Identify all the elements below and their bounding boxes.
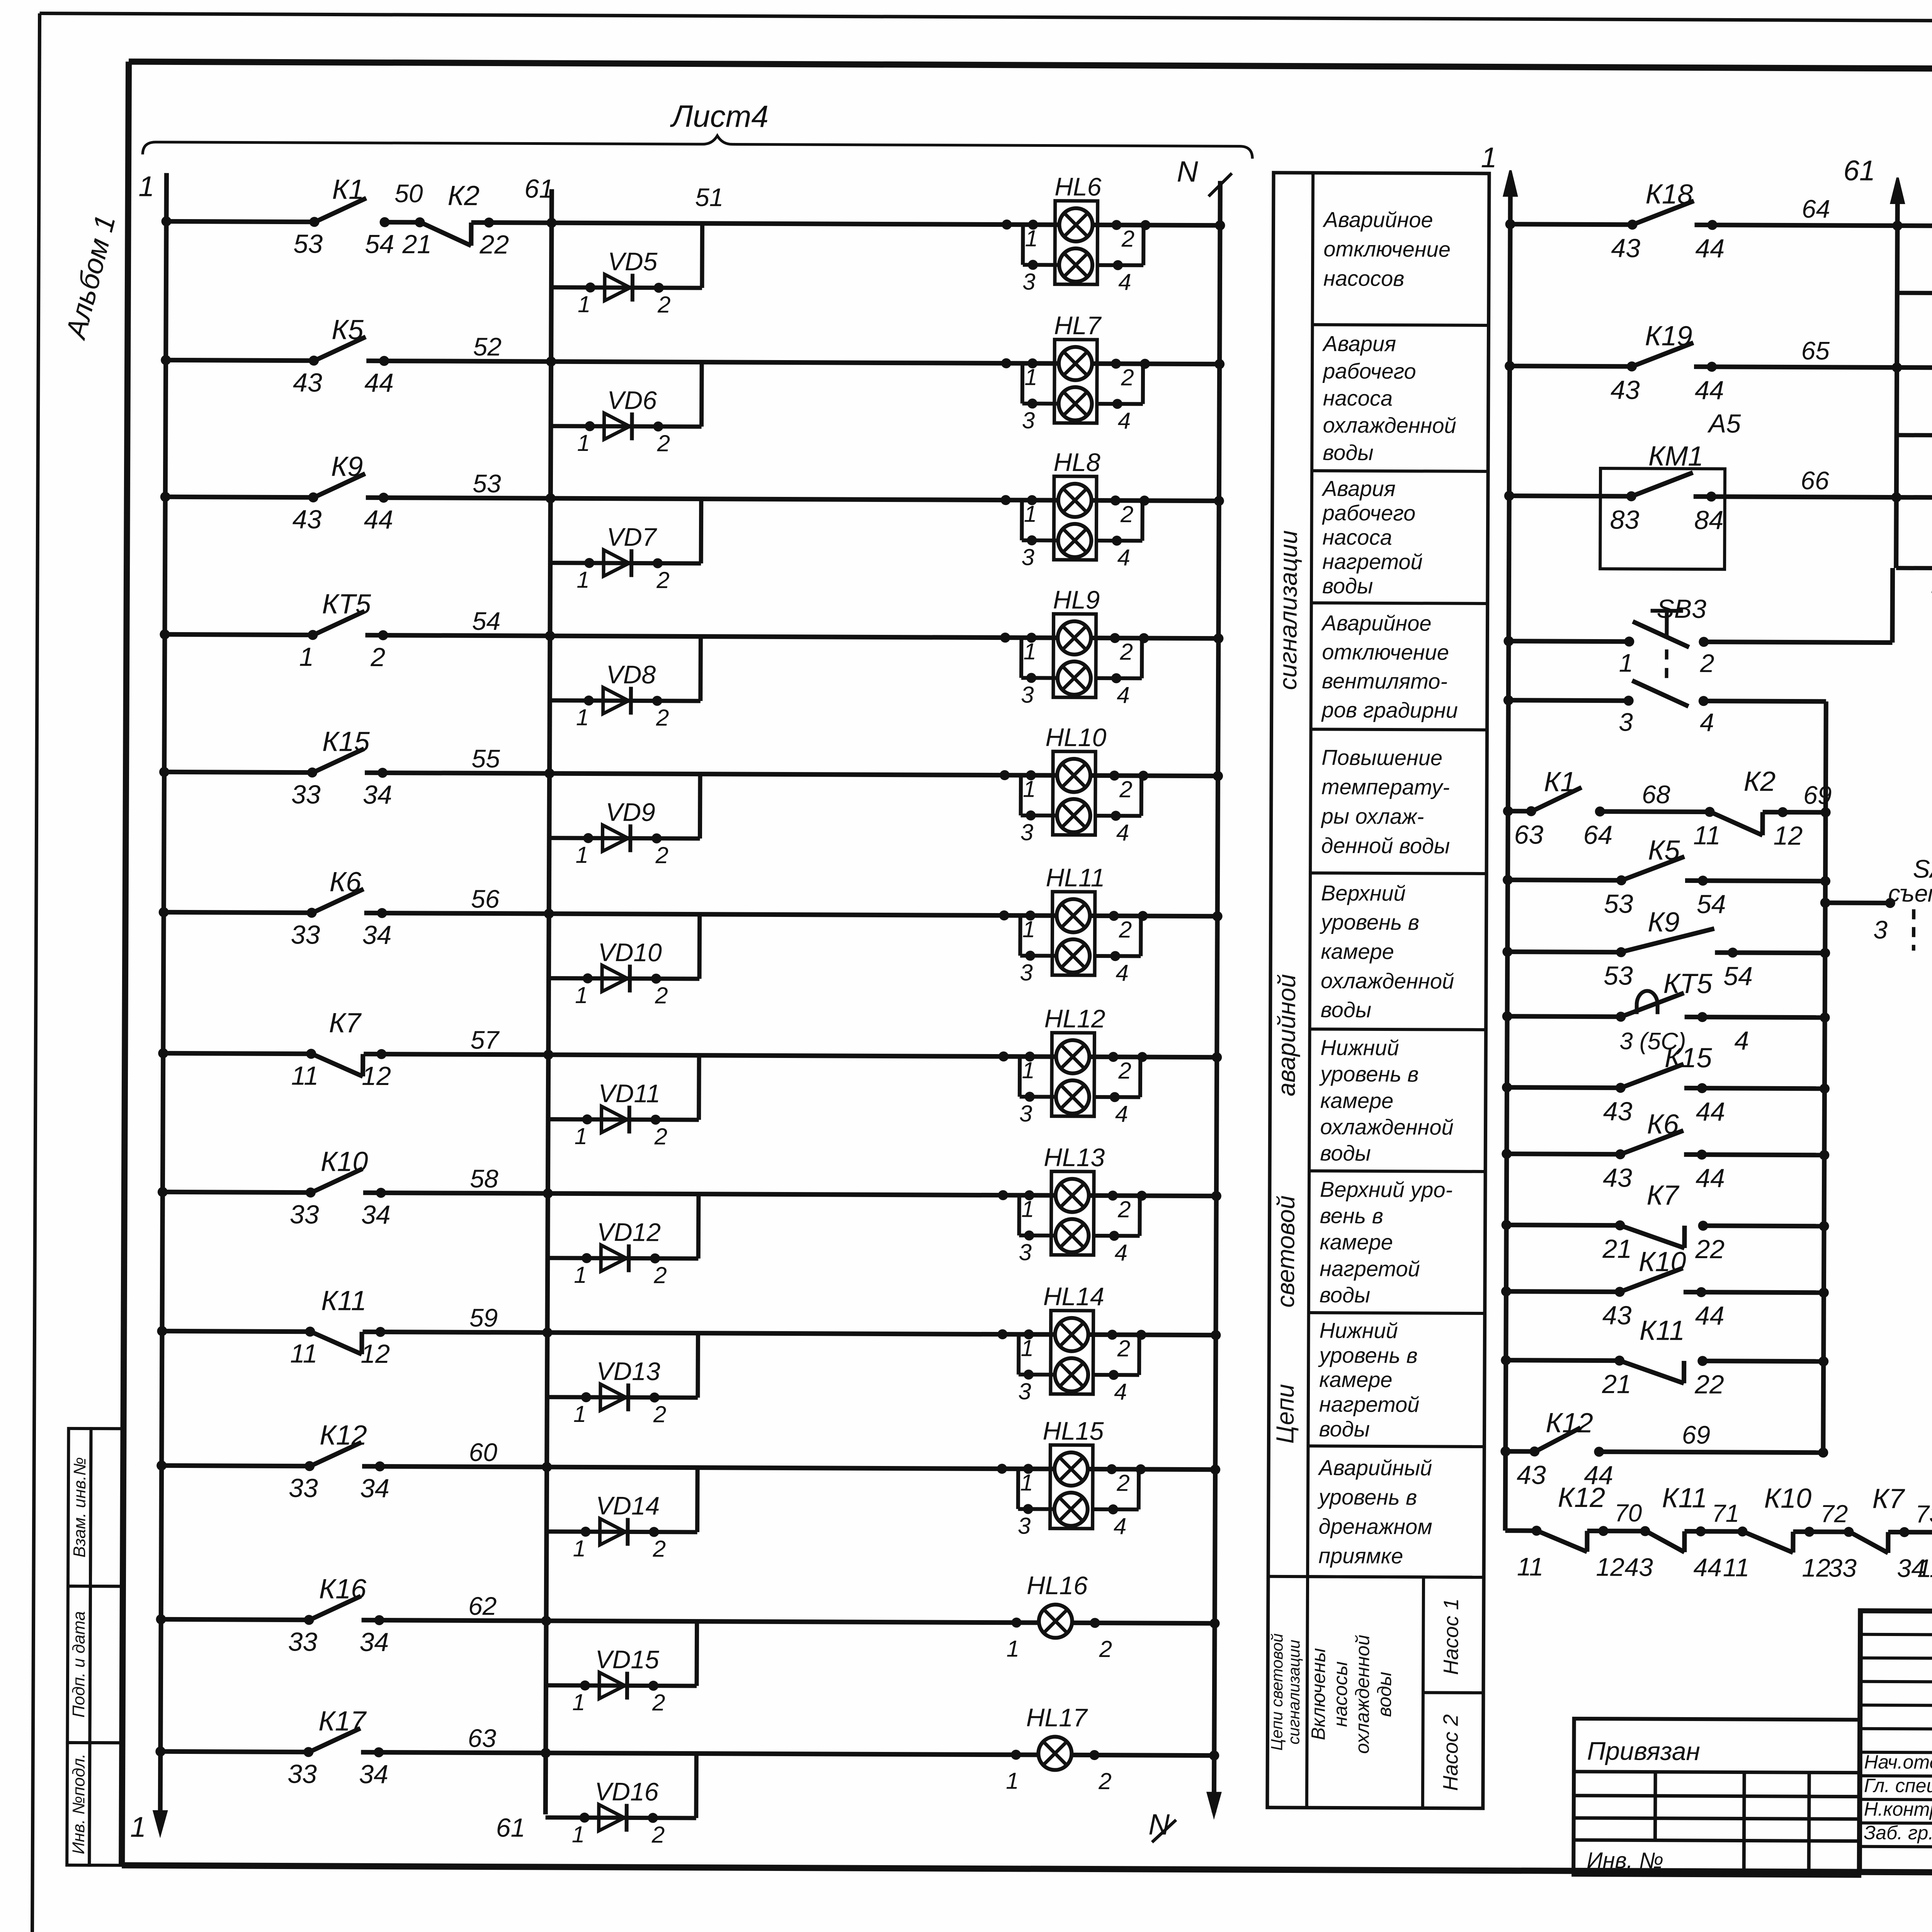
svg-text:дренажном: дренажном (1318, 1514, 1432, 1539)
svg-text:1: 1 (1006, 1768, 1019, 1794)
svg-text:уровень в: уровень в (1317, 1485, 1417, 1509)
svg-text:44: 44 (364, 505, 393, 534)
svg-text:1: 1 (572, 1689, 585, 1715)
svg-text:44: 44 (1695, 234, 1725, 263)
svg-text:Повышение: Повышение (1321, 745, 1442, 770)
svg-text:VD9: VD9 (605, 798, 655, 826)
svg-text:воды: воды (1321, 997, 1372, 1022)
svg-text:1: 1 (1023, 638, 1036, 664)
svg-text:1: 1 (1007, 1636, 1020, 1662)
svg-text:1: 1 (1022, 916, 1036, 942)
svg-text:К10: К10 (1764, 1483, 1811, 1514)
svg-text:приямке: приямке (1318, 1543, 1403, 1568)
svg-text:Н.контр.: Н.контр. (1864, 1798, 1932, 1820)
svg-text:температу-: температу- (1321, 774, 1450, 799)
svg-text:К9: К9 (331, 451, 363, 482)
svg-text:К5: К5 (332, 314, 364, 345)
svg-text:HL6: HL6 (1054, 172, 1102, 201)
svg-text:4: 4 (1114, 1240, 1128, 1265)
svg-text:2: 2 (656, 567, 670, 593)
svg-text:2: 2 (1117, 1335, 1131, 1361)
svg-text:2: 2 (1120, 501, 1134, 527)
svg-text:3: 3 (1021, 682, 1034, 707)
svg-text:Заб. гр.: Заб. гр. (1864, 1822, 1932, 1844)
svg-text:К12: К12 (1546, 1408, 1593, 1439)
svg-text:34: 34 (362, 920, 391, 950)
svg-text:охлажденной: охлажденной (1323, 413, 1456, 437)
svg-text:1: 1 (1022, 1057, 1035, 1083)
svg-text:К5: К5 (1648, 835, 1680, 866)
svg-text:воды: воды (1320, 1282, 1371, 1307)
svg-text:насосов: насосов (1323, 266, 1405, 291)
svg-text:1: 1 (1020, 1469, 1033, 1495)
svg-text:1: 1 (577, 430, 590, 456)
svg-text:33: 33 (289, 1473, 318, 1503)
svg-text:2: 2 (370, 643, 385, 672)
svg-text:1: 1 (575, 842, 588, 868)
svg-text:VD10: VD10 (598, 938, 662, 967)
svg-text:КT5: КT5 (322, 588, 371, 619)
svg-text:HL12: HL12 (1044, 1004, 1105, 1033)
svg-text:К12: К12 (1558, 1482, 1605, 1513)
svg-text:58: 58 (470, 1164, 498, 1193)
svg-text:К15: К15 (322, 726, 370, 757)
svg-text:1: 1 (130, 1811, 146, 1843)
svg-text:54: 54 (1723, 961, 1753, 991)
svg-text:70: 70 (1614, 1499, 1642, 1527)
svg-text:22: 22 (1695, 1235, 1725, 1264)
svg-text:HL9: HL9 (1053, 585, 1100, 614)
svg-text:54: 54 (472, 607, 501, 635)
svg-text:Насос 1: Насос 1 (1439, 1598, 1463, 1675)
svg-text:3: 3 (1019, 1239, 1032, 1265)
svg-text:1: 1 (573, 1401, 587, 1427)
svg-text:VD7: VD7 (607, 522, 657, 551)
svg-text:VD15: VD15 (595, 1645, 660, 1674)
svg-text:43: 43 (1603, 1097, 1633, 1126)
svg-text:4: 4 (1118, 269, 1131, 295)
svg-text:Насос 2: Насос 2 (1439, 1714, 1463, 1791)
svg-text:Цепи: Цепи (1271, 1384, 1299, 1444)
svg-text:22: 22 (1694, 1370, 1724, 1399)
svg-text:1: 1 (573, 1536, 586, 1561)
svg-text:2: 2 (652, 1690, 665, 1716)
svg-text:3: 3 (1018, 1513, 1031, 1539)
svg-text:HL16: HL16 (1027, 1571, 1088, 1600)
svg-text:2: 2 (651, 1822, 665, 1848)
svg-text:уровень в: уровень в (1318, 1343, 1418, 1367)
svg-text:2: 2 (657, 430, 670, 456)
svg-text:57: 57 (471, 1026, 500, 1054)
svg-text:11: 11 (1693, 821, 1721, 850)
svg-text:Аварийное: Аварийное (1322, 207, 1433, 232)
svg-text:1: 1 (1021, 1196, 1034, 1222)
svg-text:1: 1 (578, 291, 591, 317)
svg-text:61: 61 (496, 1813, 526, 1842)
svg-text:64: 64 (1802, 194, 1830, 223)
svg-text:нагретой: нагретой (1320, 1256, 1420, 1281)
svg-text:33: 33 (291, 920, 320, 949)
svg-text:33: 33 (287, 1759, 317, 1789)
svg-text:2: 2 (1121, 226, 1135, 252)
svg-text:53: 53 (473, 469, 501, 498)
svg-text:44: 44 (1695, 1301, 1725, 1330)
svg-text:54: 54 (1697, 889, 1726, 919)
svg-text:К11: К11 (1639, 1315, 1685, 1346)
svg-text:HL13: HL13 (1044, 1143, 1105, 1172)
svg-text:3: 3 (1022, 407, 1035, 433)
svg-text:44: 44 (1695, 376, 1724, 405)
svg-text:1: 1 (576, 704, 589, 730)
svg-text:4: 4 (1114, 1379, 1127, 1405)
svg-text:N: N (1177, 155, 1198, 188)
svg-text:VD13: VD13 (596, 1357, 660, 1386)
svg-text:69: 69 (1803, 781, 1832, 809)
svg-text:3: 3 (1020, 819, 1034, 845)
svg-text:Подп. и дата: Подп. и дата (69, 1611, 88, 1718)
svg-text:охлажденной: охлажденной (1351, 1635, 1373, 1754)
svg-text:84: 84 (1694, 505, 1724, 535)
svg-text:53: 53 (1604, 961, 1633, 990)
svg-text:К2: К2 (447, 180, 480, 211)
svg-text:12: 12 (1802, 1553, 1830, 1582)
svg-text:1: 1 (572, 1821, 585, 1847)
svg-text:Верхний: Верхний (1321, 881, 1406, 905)
svg-text:44: 44 (364, 368, 394, 398)
svg-text:К11: К11 (1662, 1483, 1707, 1514)
svg-text:60: 60 (469, 1438, 497, 1466)
svg-text:К1: К1 (1544, 767, 1576, 798)
svg-text:Верхний уро-: Верхний уро- (1320, 1177, 1453, 1202)
svg-text:КТ5: КТ5 (1663, 968, 1713, 999)
svg-text:66: 66 (1801, 466, 1829, 495)
svg-text:К6: К6 (330, 866, 362, 897)
svg-text:нагретой: нагретой (1322, 549, 1423, 574)
svg-text:1: 1 (299, 642, 314, 672)
svg-text:отключение: отключение (1322, 639, 1449, 664)
svg-text:2: 2 (1121, 364, 1134, 390)
svg-text:83: 83 (1610, 505, 1639, 534)
svg-text:3: 3 (1018, 1378, 1031, 1404)
svg-text:HL7: HL7 (1054, 311, 1102, 340)
svg-text:воды: воды (1319, 1417, 1370, 1441)
svg-text:Авария: Авария (1321, 476, 1396, 501)
svg-text:охлажденной: охлажденной (1320, 1114, 1453, 1139)
svg-text:3: 3 (1873, 915, 1888, 944)
svg-text:HL10: HL10 (1045, 723, 1106, 752)
svg-text:нагретой: нагретой (1319, 1392, 1420, 1417)
svg-text:4: 4 (1118, 408, 1131, 434)
svg-text:2: 2 (653, 1401, 667, 1427)
svg-text:3: 3 (1020, 959, 1033, 985)
svg-text:11: 11 (1917, 1554, 1932, 1582)
svg-text:69: 69 (1682, 1420, 1711, 1449)
svg-text:HL11: HL11 (1046, 863, 1105, 892)
svg-text:61: 61 (1844, 154, 1876, 186)
svg-text:К1: К1 (332, 174, 364, 205)
svg-text:53: 53 (1604, 889, 1633, 918)
svg-text:34: 34 (360, 1474, 389, 1503)
svg-text:VD14: VD14 (596, 1491, 660, 1520)
svg-text:Инв. №: Инв. № (1587, 1848, 1663, 1873)
svg-text:44: 44 (1693, 1553, 1722, 1582)
svg-text:3: 3 (1619, 707, 1633, 736)
svg-text:К18: К18 (1645, 179, 1693, 210)
svg-text:59: 59 (469, 1303, 498, 1332)
svg-text:насоса: насоса (1322, 525, 1392, 549)
svg-text:71: 71 (1712, 1499, 1739, 1527)
svg-text:HL8: HL8 (1053, 448, 1100, 476)
svg-text:62: 62 (468, 1592, 497, 1620)
svg-text:73: 73 (1915, 1500, 1932, 1528)
svg-text:аварийной: аварийной (1272, 974, 1301, 1097)
svg-text:насоса: насоса (1323, 386, 1393, 410)
svg-text:33: 33 (1828, 1553, 1857, 1582)
svg-text:световой: световой (1272, 1196, 1300, 1308)
svg-text:4: 4 (1700, 708, 1714, 736)
svg-text:11: 11 (1723, 1553, 1750, 1582)
svg-text:1: 1 (575, 982, 588, 1008)
svg-text:вентилято-: вентилято- (1322, 668, 1447, 693)
svg-text:51: 51 (695, 183, 724, 211)
svg-text:Взам. инв.№: Взам. инв.№ (70, 1457, 89, 1558)
svg-text:сигнализации: сигнализации (1274, 530, 1303, 690)
svg-text:52: 52 (473, 332, 502, 361)
svg-text:Нижний: Нижний (1320, 1035, 1399, 1060)
svg-text:4: 4 (1117, 682, 1130, 708)
svg-text:43: 43 (1602, 1301, 1632, 1330)
svg-text:1: 1 (575, 1123, 588, 1149)
svg-text:2: 2 (1099, 1636, 1112, 1662)
svg-text:34: 34 (363, 780, 392, 810)
svg-text:ры охлаж-: ры охлаж- (1321, 804, 1424, 828)
svg-text:камере: камере (1319, 1367, 1393, 1392)
svg-text:Привязан: Привязан (1587, 1736, 1700, 1765)
svg-text:2: 2 (657, 292, 671, 318)
svg-text:Авария: Авария (1322, 331, 1396, 356)
svg-text:21: 21 (1602, 1369, 1631, 1399)
svg-text:43: 43 (1517, 1460, 1546, 1490)
svg-text:Включены: Включены (1307, 1648, 1329, 1740)
svg-text:4: 4 (1734, 1026, 1749, 1055)
svg-text:21: 21 (402, 230, 432, 259)
svg-text:1: 1 (1481, 141, 1497, 173)
svg-text:56: 56 (471, 884, 500, 913)
svg-text:К6: К6 (1647, 1109, 1679, 1140)
svg-text:65: 65 (1801, 336, 1830, 365)
svg-text:охлажденной: охлажденной (1321, 968, 1454, 993)
svg-text:ров градирни: ров градирни (1321, 697, 1458, 722)
svg-text:1: 1 (1023, 776, 1036, 802)
svg-text:камере: камере (1321, 939, 1394, 964)
svg-text:Аварийный: Аварийный (1318, 1455, 1432, 1480)
svg-text:2: 2 (1119, 639, 1133, 665)
svg-text:2: 2 (653, 1262, 667, 1288)
svg-text:1: 1 (1025, 225, 1038, 251)
svg-text:съем: съем (1888, 880, 1932, 907)
svg-text:53: 53 (293, 229, 323, 259)
svg-text:К16: К16 (319, 1573, 367, 1604)
svg-text:VD16: VD16 (595, 1777, 659, 1806)
svg-text:1: 1 (1024, 364, 1037, 390)
svg-text:2: 2 (656, 705, 669, 731)
svg-text:54: 54 (365, 230, 394, 259)
svg-text:К12: К12 (320, 1420, 367, 1451)
svg-text:отключение: отключение (1323, 236, 1451, 261)
svg-text:21: 21 (1602, 1234, 1632, 1264)
svg-text:VD6: VD6 (607, 386, 657, 414)
svg-text:34: 34 (359, 1628, 389, 1657)
svg-text:3: 3 (1022, 269, 1036, 294)
svg-text:К10: К10 (321, 1146, 368, 1177)
svg-text:1: 1 (1024, 501, 1037, 527)
svg-text:44: 44 (1696, 1163, 1725, 1193)
svg-text:63: 63 (468, 1724, 497, 1752)
svg-text:2: 2 (1117, 1196, 1131, 1222)
svg-text:1: 1 (574, 1262, 587, 1288)
svg-text:К10: К10 (1639, 1246, 1686, 1277)
svg-text:4: 4 (1116, 820, 1129, 845)
svg-text:насосы: насосы (1330, 1661, 1352, 1727)
svg-text:11: 11 (1517, 1552, 1544, 1581)
svg-text:воды: воды (1320, 1141, 1371, 1165)
svg-text:34: 34 (359, 1760, 388, 1789)
svg-text:К15: К15 (1665, 1043, 1713, 1073)
svg-text:1: 1 (138, 170, 154, 202)
svg-text:43: 43 (1611, 233, 1640, 263)
svg-text:К17: К17 (318, 1706, 367, 1736)
svg-text:Нач.отд.: Нач.отд. (1864, 1751, 1932, 1773)
svg-text:43: 43 (1624, 1553, 1653, 1581)
svg-text:61: 61 (524, 174, 554, 203)
svg-text:Аварийное: Аварийное (1321, 611, 1431, 635)
svg-text:воды: воды (1374, 1672, 1395, 1717)
svg-text:33: 33 (290, 1200, 319, 1229)
svg-text:уровень в: уровень в (1319, 910, 1419, 934)
svg-text:Нижний: Нижний (1319, 1318, 1398, 1343)
svg-text:Инв. №подл.: Инв. №подл. (69, 1753, 88, 1854)
svg-text:43: 43 (1603, 1163, 1632, 1192)
svg-text:камере: камере (1320, 1088, 1394, 1113)
svg-text:2: 2 (1098, 1768, 1112, 1794)
svg-text:рабочего: рабочего (1322, 359, 1416, 383)
svg-text:50: 50 (395, 179, 423, 207)
svg-text:уровень в: уровень в (1319, 1061, 1419, 1086)
svg-text:К11: К11 (321, 1285, 366, 1316)
svg-text:2: 2 (654, 1124, 668, 1150)
svg-text:2: 2 (1119, 776, 1133, 802)
svg-text:2: 2 (1118, 1058, 1131, 1083)
svg-text:2: 2 (1119, 917, 1132, 942)
svg-text:VD8: VD8 (606, 660, 656, 689)
svg-text:VD11: VD11 (599, 1079, 660, 1108)
svg-text:воды: воды (1322, 573, 1373, 598)
svg-text:4: 4 (1116, 960, 1129, 986)
svg-text:А5: А5 (1707, 409, 1741, 438)
svg-text:воды: воды (1323, 440, 1374, 465)
svg-text:HL15: HL15 (1043, 1417, 1104, 1446)
svg-text:Цепи световой: Цепи световой (1267, 1633, 1286, 1751)
svg-text:12: 12 (1596, 1553, 1624, 1581)
svg-text:К7: К7 (1872, 1483, 1905, 1514)
svg-text:12: 12 (362, 1061, 391, 1091)
svg-text:2: 2 (655, 842, 668, 868)
svg-text:Гл. спец.: Гл. спец. (1864, 1775, 1932, 1797)
svg-text:11: 11 (291, 1061, 319, 1090)
svg-text:4: 4 (1117, 544, 1130, 570)
svg-text:55: 55 (471, 744, 500, 773)
svg-text:VD5: VD5 (608, 247, 658, 276)
svg-text:1: 1 (1021, 1335, 1034, 1361)
svg-text:3: 3 (1019, 1100, 1032, 1126)
svg-text:вень в: вень в (1320, 1203, 1383, 1228)
svg-text:денной воды: денной воды (1321, 833, 1450, 858)
svg-text:68: 68 (1642, 780, 1670, 808)
svg-text:64: 64 (1583, 820, 1612, 850)
svg-text:43: 43 (293, 505, 322, 534)
svg-text:камере: камере (1320, 1230, 1393, 1254)
svg-text:11: 11 (290, 1339, 318, 1368)
svg-text:33: 33 (291, 780, 321, 809)
svg-text:сигнализации: сигнализации (1284, 1639, 1303, 1744)
svg-text:К2: К2 (1744, 766, 1776, 797)
svg-text:SA3: SA3 (1913, 854, 1932, 883)
svg-text:К7: К7 (1646, 1180, 1680, 1211)
svg-text:1: 1 (577, 567, 590, 593)
svg-text:2: 2 (1116, 1470, 1130, 1496)
svg-text:33: 33 (288, 1627, 317, 1656)
svg-text:Лист4: Лист4 (670, 99, 769, 134)
svg-text:34: 34 (361, 1200, 391, 1230)
svg-text:рабочего: рабочего (1322, 500, 1416, 525)
svg-text:VD12: VD12 (597, 1218, 661, 1247)
svg-text:63: 63 (1514, 820, 1543, 849)
svg-text:4: 4 (1114, 1513, 1127, 1539)
svg-text:43: 43 (1611, 375, 1640, 405)
svg-text:1: 1 (1619, 648, 1633, 677)
svg-text:2: 2 (1700, 649, 1714, 677)
svg-text:72: 72 (1820, 1500, 1848, 1527)
svg-text:44: 44 (1696, 1097, 1725, 1126)
svg-text:HL17: HL17 (1026, 1703, 1088, 1732)
svg-text:4: 4 (1115, 1101, 1128, 1127)
svg-text:HL14: HL14 (1043, 1282, 1104, 1311)
svg-text:12: 12 (1773, 821, 1803, 850)
svg-text:2: 2 (655, 983, 668, 1009)
svg-text:К9: К9 (1648, 907, 1680, 938)
svg-text:43: 43 (293, 368, 322, 397)
svg-text:К7: К7 (329, 1007, 362, 1038)
svg-text:2: 2 (653, 1536, 666, 1562)
svg-text:22: 22 (479, 230, 509, 259)
svg-text:12: 12 (361, 1339, 390, 1369)
svg-text:3: 3 (1021, 544, 1034, 570)
svg-text:К19: К19 (1645, 321, 1692, 352)
